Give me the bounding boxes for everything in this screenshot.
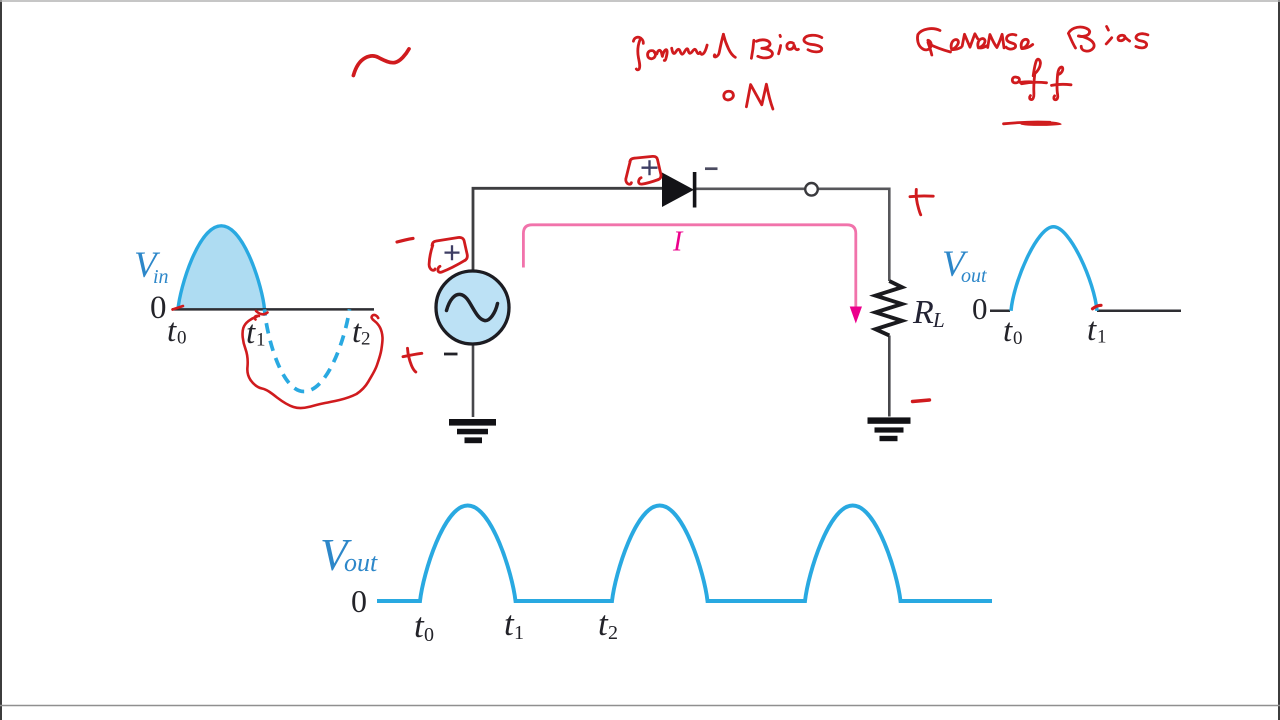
svg-text:0: 0 [177, 328, 187, 349]
svg-text:I: I [672, 227, 684, 258]
svg-text:0: 0 [1013, 328, 1023, 349]
svg-text:0: 0 [424, 624, 434, 646]
svg-text:1: 1 [514, 622, 524, 644]
svg-text:out: out [961, 265, 987, 287]
svg-text:0: 0 [351, 583, 367, 619]
svg-text:2: 2 [361, 329, 371, 350]
svg-text:R: R [912, 294, 934, 331]
svg-text:L: L [932, 308, 945, 332]
svg-text:0: 0 [150, 290, 167, 326]
svg-text:out: out [344, 548, 378, 577]
svg-text:1: 1 [256, 330, 266, 351]
svg-text:1: 1 [1097, 327, 1107, 348]
svg-text:t: t [1087, 312, 1097, 348]
svg-text:t: t [1003, 313, 1013, 349]
svg-text:in: in [153, 266, 169, 288]
svg-text:2: 2 [608, 622, 618, 644]
svg-text:0: 0 [972, 291, 988, 326]
svg-text:t: t [167, 313, 177, 349]
